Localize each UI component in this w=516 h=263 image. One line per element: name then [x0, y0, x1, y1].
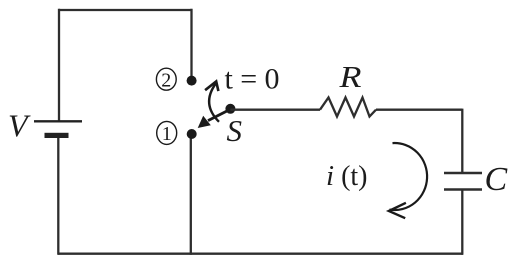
- svg-text:1: 1: [162, 123, 172, 145]
- wire right lower: [461, 190, 463, 255]
- svg-text:S: S: [227, 113, 243, 148]
- wire left lower: [57, 138, 59, 255]
- svg-text:V: V: [8, 108, 31, 144]
- wire top: [59, 9, 192, 11]
- current direction arc i(t): [389, 143, 427, 218]
- wire right upper: [461, 109, 463, 173]
- wire switch to resistor: [230, 109, 320, 111]
- switch S pole dot: [225, 104, 235, 114]
- wire bottom: [58, 253, 463, 255]
- wire middle upper (to contact 2): [190, 9, 192, 80]
- wire left upper: [58, 9, 60, 121]
- svg-text:2: 2: [161, 69, 171, 91]
- switch blade arrow toward contact 1: [198, 109, 231, 128]
- circled label 1: [157, 121, 177, 145]
- svg-text:i (t): i (t): [326, 160, 368, 192]
- node 1 contact dot: [187, 129, 197, 139]
- resistor R zigzag: [320, 98, 376, 117]
- battery V: [34, 121, 82, 138]
- capacitor C plates: [444, 173, 482, 190]
- switch motion curved arrow: [205, 81, 219, 121]
- svg-text:R: R: [338, 59, 361, 94]
- svg-text:C: C: [485, 161, 508, 198]
- node 2 contact dot: [187, 76, 197, 86]
- wire resistor to right: [376, 109, 462, 111]
- circled label 2: [156, 68, 176, 91]
- wire middle lower (from contact 1): [190, 134, 192, 255]
- svg-text:t = 0: t = 0: [225, 62, 280, 95]
